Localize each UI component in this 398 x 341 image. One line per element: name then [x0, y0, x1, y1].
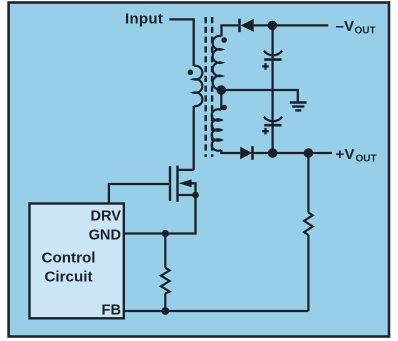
node C2 junction: [268, 148, 278, 158]
svg-text:OUT: OUT: [355, 26, 376, 37]
capacitor C2 plus label: [262, 128, 269, 135]
Q1 gate bar: [169, 166, 171, 201]
wire source to GND rail: [124, 195, 196, 234]
svg-text:OUT: OUT: [356, 153, 377, 164]
diode D1 top (cathode left): [240, 19, 254, 32]
capacitor C1 plus label: [262, 63, 269, 70]
capacitor C1 straight plate: [264, 58, 281, 61]
wire center tap rail to ground: [221, 90, 297, 103]
capacitor C1 lead: [271, 25, 273, 89]
node +Vout junction: [304, 148, 314, 158]
svg-text:+V: +V: [336, 146, 356, 163]
wire diode D2 to +Vout: [253, 152, 333, 154]
control circuit box U1: [30, 204, 124, 319]
capacitor C1 curved plate: [264, 51, 282, 56]
svg-text:FB: FB: [102, 303, 121, 319]
Q1 body stub and arrow: [179, 179, 192, 187]
capacitor C2 straight plate: [264, 124, 281, 127]
svg-text:GND: GND: [89, 227, 121, 243]
node FB junction: [161, 307, 169, 315]
transformer core dashed line left: [204, 17, 206, 157]
wire bottom secondary to bottom rail: [221, 150, 240, 153]
Q1 source-body node: [192, 192, 199, 199]
diode D2 bottom (cathode right): [240, 146, 252, 160]
transformer T1 bottom secondary winding: [212, 109, 222, 150]
Q1 source stub: [178, 194, 196, 196]
transformer T1 top secondary winding: [213, 36, 222, 90]
svg-text:–V: –V: [336, 18, 355, 35]
Q1 drain stub: [178, 169, 194, 171]
node GND rail junction: [162, 230, 169, 237]
Q1 channel bar: [176, 166, 178, 202]
top secondary phase dot: [221, 37, 227, 43]
bottom secondary phase dot: [221, 105, 227, 111]
primary phase dot: [188, 70, 194, 76]
wire input to transformer primary: [169, 19, 193, 66]
svg-text:Control: Control: [42, 249, 96, 266]
transformer T1 primary winding: [194, 66, 203, 106]
wire FB rail: [124, 310, 308, 312]
wire center tap link: [220, 89, 222, 110]
wire DRV to gate: [109, 184, 170, 204]
capacitor C2 curved plate: [264, 117, 282, 122]
svg-text:Input: Input: [125, 11, 163, 28]
resistor R2 divider bottom: [161, 234, 170, 312]
ground: [290, 103, 307, 111]
wire top secondary to top rail: [222, 25, 239, 36]
node center tap: [217, 85, 227, 95]
wire diode D1 to -Vout: [254, 24, 329, 26]
transformer core dashed line right: [211, 17, 213, 157]
capacitor C2 lead: [271, 90, 273, 153]
svg-text:DRV: DRV: [90, 208, 121, 224]
MOSFET Q1: [170, 166, 199, 202]
node -Vout junction: [268, 21, 278, 31]
wire primary bottom to drain: [193, 106, 195, 170]
resistor R1 divider top: [304, 153, 313, 311]
svg-text:Circuit: Circuit: [44, 268, 92, 285]
